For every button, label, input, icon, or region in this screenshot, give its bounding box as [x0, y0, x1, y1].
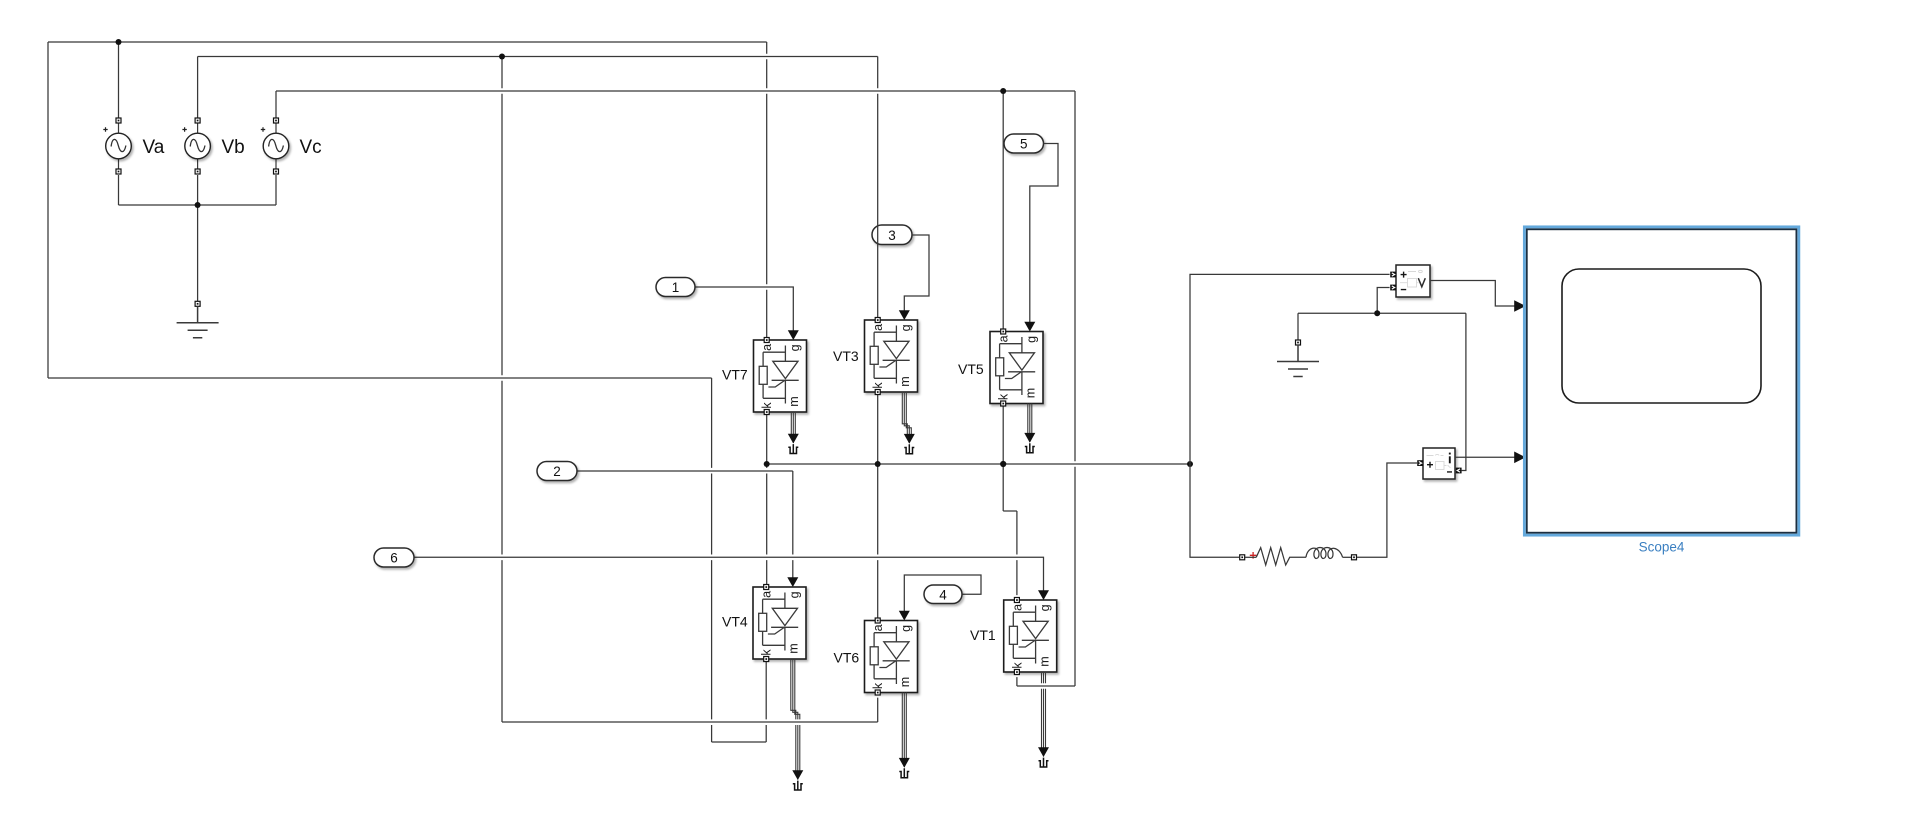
- wire: VT3 anode column: [877, 57, 879, 318]
- thyristor VT5: [990, 329, 1043, 406]
- svg-text:VT1: VT1: [970, 627, 996, 643]
- scope block Scope4: [1524, 227, 1798, 535]
- junction dot bus VT3: [875, 461, 881, 467]
- wire: load node up to voltage measurement +: [1190, 274, 1390, 464]
- svg-text:1: 1: [672, 280, 680, 295]
- label red plus polarity: [1250, 552, 1257, 559]
- wire: VT4 anode feed vertical: [711, 378, 713, 742]
- VT4 terminator: [793, 781, 803, 790]
- AC source Va: [103, 118, 131, 174]
- junction dot neutral: [195, 202, 201, 208]
- svg-text:3: 3: [888, 228, 896, 243]
- i block + input marker: [1417, 460, 1423, 466]
- VT5 m output wide line: [1028, 404, 1032, 443]
- wire: inport6 to VT1 gate: [414, 557, 1044, 590]
- VT7 terminator: [788, 444, 798, 453]
- wire: phase C right drop to VT1 cathode: [1017, 91, 1075, 686]
- VT6 m output wide line: [902, 693, 906, 768]
- thyristor VT7: [754, 338, 807, 415]
- wire: phase C top rail: [276, 90, 1075, 92]
- arrow into scope input 1: [1514, 300, 1526, 312]
- wire: voltage minus lead: [1377, 288, 1389, 314]
- junction dot phase A rail: [116, 39, 122, 45]
- AC source Vc: [261, 118, 289, 174]
- wire: phase B top rail: [198, 56, 878, 58]
- svg-text:Vc: Vc: [300, 137, 322, 158]
- wire: phase B drop to VT6 cathode: [502, 57, 878, 723]
- junction dot phase C rail: [1000, 88, 1006, 94]
- wire: inport3 to VT3 gate: [904, 235, 929, 311]
- arrow into VT5 gate: [1024, 322, 1035, 332]
- VT7 m arrow: [788, 434, 799, 444]
- arrow into VT7 gate: [788, 330, 799, 340]
- wire: inport4 to VT6 gate: [904, 575, 981, 611]
- VT5 terminator: [1025, 443, 1035, 452]
- wire: output bus: [767, 463, 1190, 465]
- wire: VT5 anode column: [1002, 91, 1004, 329]
- wire: VT3 cathode to bus and VT6 anode: [877, 395, 879, 618]
- thyristor VT4: [753, 585, 806, 662]
- junction dot load node: [1187, 461, 1193, 467]
- svg-text:Vb: Vb: [222, 137, 245, 158]
- inport 2: [537, 462, 577, 481]
- svg-text:VT7: VT7: [722, 366, 748, 382]
- svg-text:4: 4: [939, 587, 947, 602]
- junction dot bus VT5: [1000, 461, 1006, 467]
- wire: inport1 to VT7 gate: [695, 287, 793, 331]
- VT1 terminator: [1039, 758, 1049, 767]
- svg-text:Va: Va: [143, 137, 165, 158]
- svg-text:VT6: VT6: [834, 650, 860, 666]
- VT1 m output wide line: [1042, 672, 1046, 757]
- voltage measurement block U_v: [1396, 265, 1430, 297]
- junction dot phase B rail: [499, 54, 505, 60]
- wire: source commons to neutral: [119, 175, 277, 301]
- VT4 m arrow: [792, 770, 803, 780]
- inport 1: [656, 278, 695, 297]
- wire: phase A top rail: [48, 41, 767, 43]
- wire: RL to current measurement +: [1357, 463, 1417, 557]
- current measurement block U_i: [1423, 448, 1455, 479]
- VT3 terminator: [904, 444, 914, 453]
- wire: VT7 cathode to bus and VT4 anode: [766, 415, 768, 585]
- thyristor VT3: [865, 318, 918, 395]
- node: RL right port: [1352, 555, 1357, 560]
- arrow into scope input 2: [1514, 452, 1526, 464]
- VT7 m output wide line: [791, 412, 795, 443]
- inductor L: [1306, 548, 1343, 559]
- svg-text:VT5: VT5: [958, 361, 984, 377]
- svg-text:6: 6: [390, 551, 398, 566]
- svg-text:VT3: VT3: [833, 348, 859, 364]
- v block - input marker: [1390, 285, 1396, 291]
- svg-text:VT4: VT4: [722, 613, 748, 629]
- wire: Vc drop: [275, 91, 277, 118]
- arrow into VT6 gate: [899, 611, 910, 621]
- VT6 m arrow: [899, 758, 910, 768]
- wire: i output to scope: [1455, 456, 1515, 458]
- VT6 terminator: [899, 768, 909, 777]
- wire: left frame vertical: [47, 42, 49, 378]
- resistor R: [1256, 548, 1306, 565]
- wire: inport5 to VT5 gate: [1030, 144, 1058, 323]
- wire: load node down to RL branch: [1190, 464, 1239, 557]
- ground measurement: [1277, 340, 1319, 377]
- wire: measurement ground rail: [1298, 313, 1466, 470]
- VT5 m arrow: [1024, 433, 1035, 443]
- inport 6: [374, 548, 414, 567]
- inport 3: [872, 225, 912, 245]
- thyristor VT6: [865, 618, 918, 695]
- wire: left frame horizontal to VT4 column: [48, 377, 712, 379]
- arrow into VT3 gate: [899, 310, 910, 320]
- VT4 m output wide line: [791, 659, 800, 780]
- wire: inport2 to VT4 gate: [577, 471, 793, 578]
- i block - input marker right: [1456, 468, 1462, 474]
- VT1 m arrow: [1038, 747, 1049, 757]
- arrow into VT1 gate: [1038, 590, 1049, 600]
- VT3 m output wide line: [902, 392, 911, 443]
- v block + input marker: [1390, 272, 1396, 278]
- arrow into VT4 gate: [787, 577, 798, 587]
- wire: Va drop: [118, 42, 120, 118]
- wire: stub to resistor: [1245, 556, 1256, 558]
- junction dot bus VT7: [764, 461, 770, 467]
- wire: bottom jog to VT4 cathode: [712, 662, 767, 742]
- svg-text:5: 5: [1020, 137, 1028, 152]
- wire: VT7 anode column: [766, 42, 768, 337]
- thyristor VT1: [1004, 598, 1057, 675]
- wire: v output to scope: [1430, 281, 1515, 307]
- junction dot ground rail: [1374, 310, 1380, 316]
- VT3 m arrow: [904, 434, 915, 444]
- svg-text:Scope4: Scope4: [1639, 540, 1685, 555]
- svg-text:2: 2: [553, 464, 561, 479]
- node: RL left port: [1240, 555, 1245, 560]
- AC source Vb: [182, 118, 210, 174]
- wire: VT5 cathode to bus and VT1 anode: [1003, 406, 1017, 595]
- wire: stub from inductor: [1343, 556, 1352, 558]
- inport 4: [924, 585, 962, 604]
- wire: Vb drop: [197, 57, 199, 119]
- inport 5: [1004, 134, 1044, 153]
- ground source neutral: [177, 301, 219, 338]
